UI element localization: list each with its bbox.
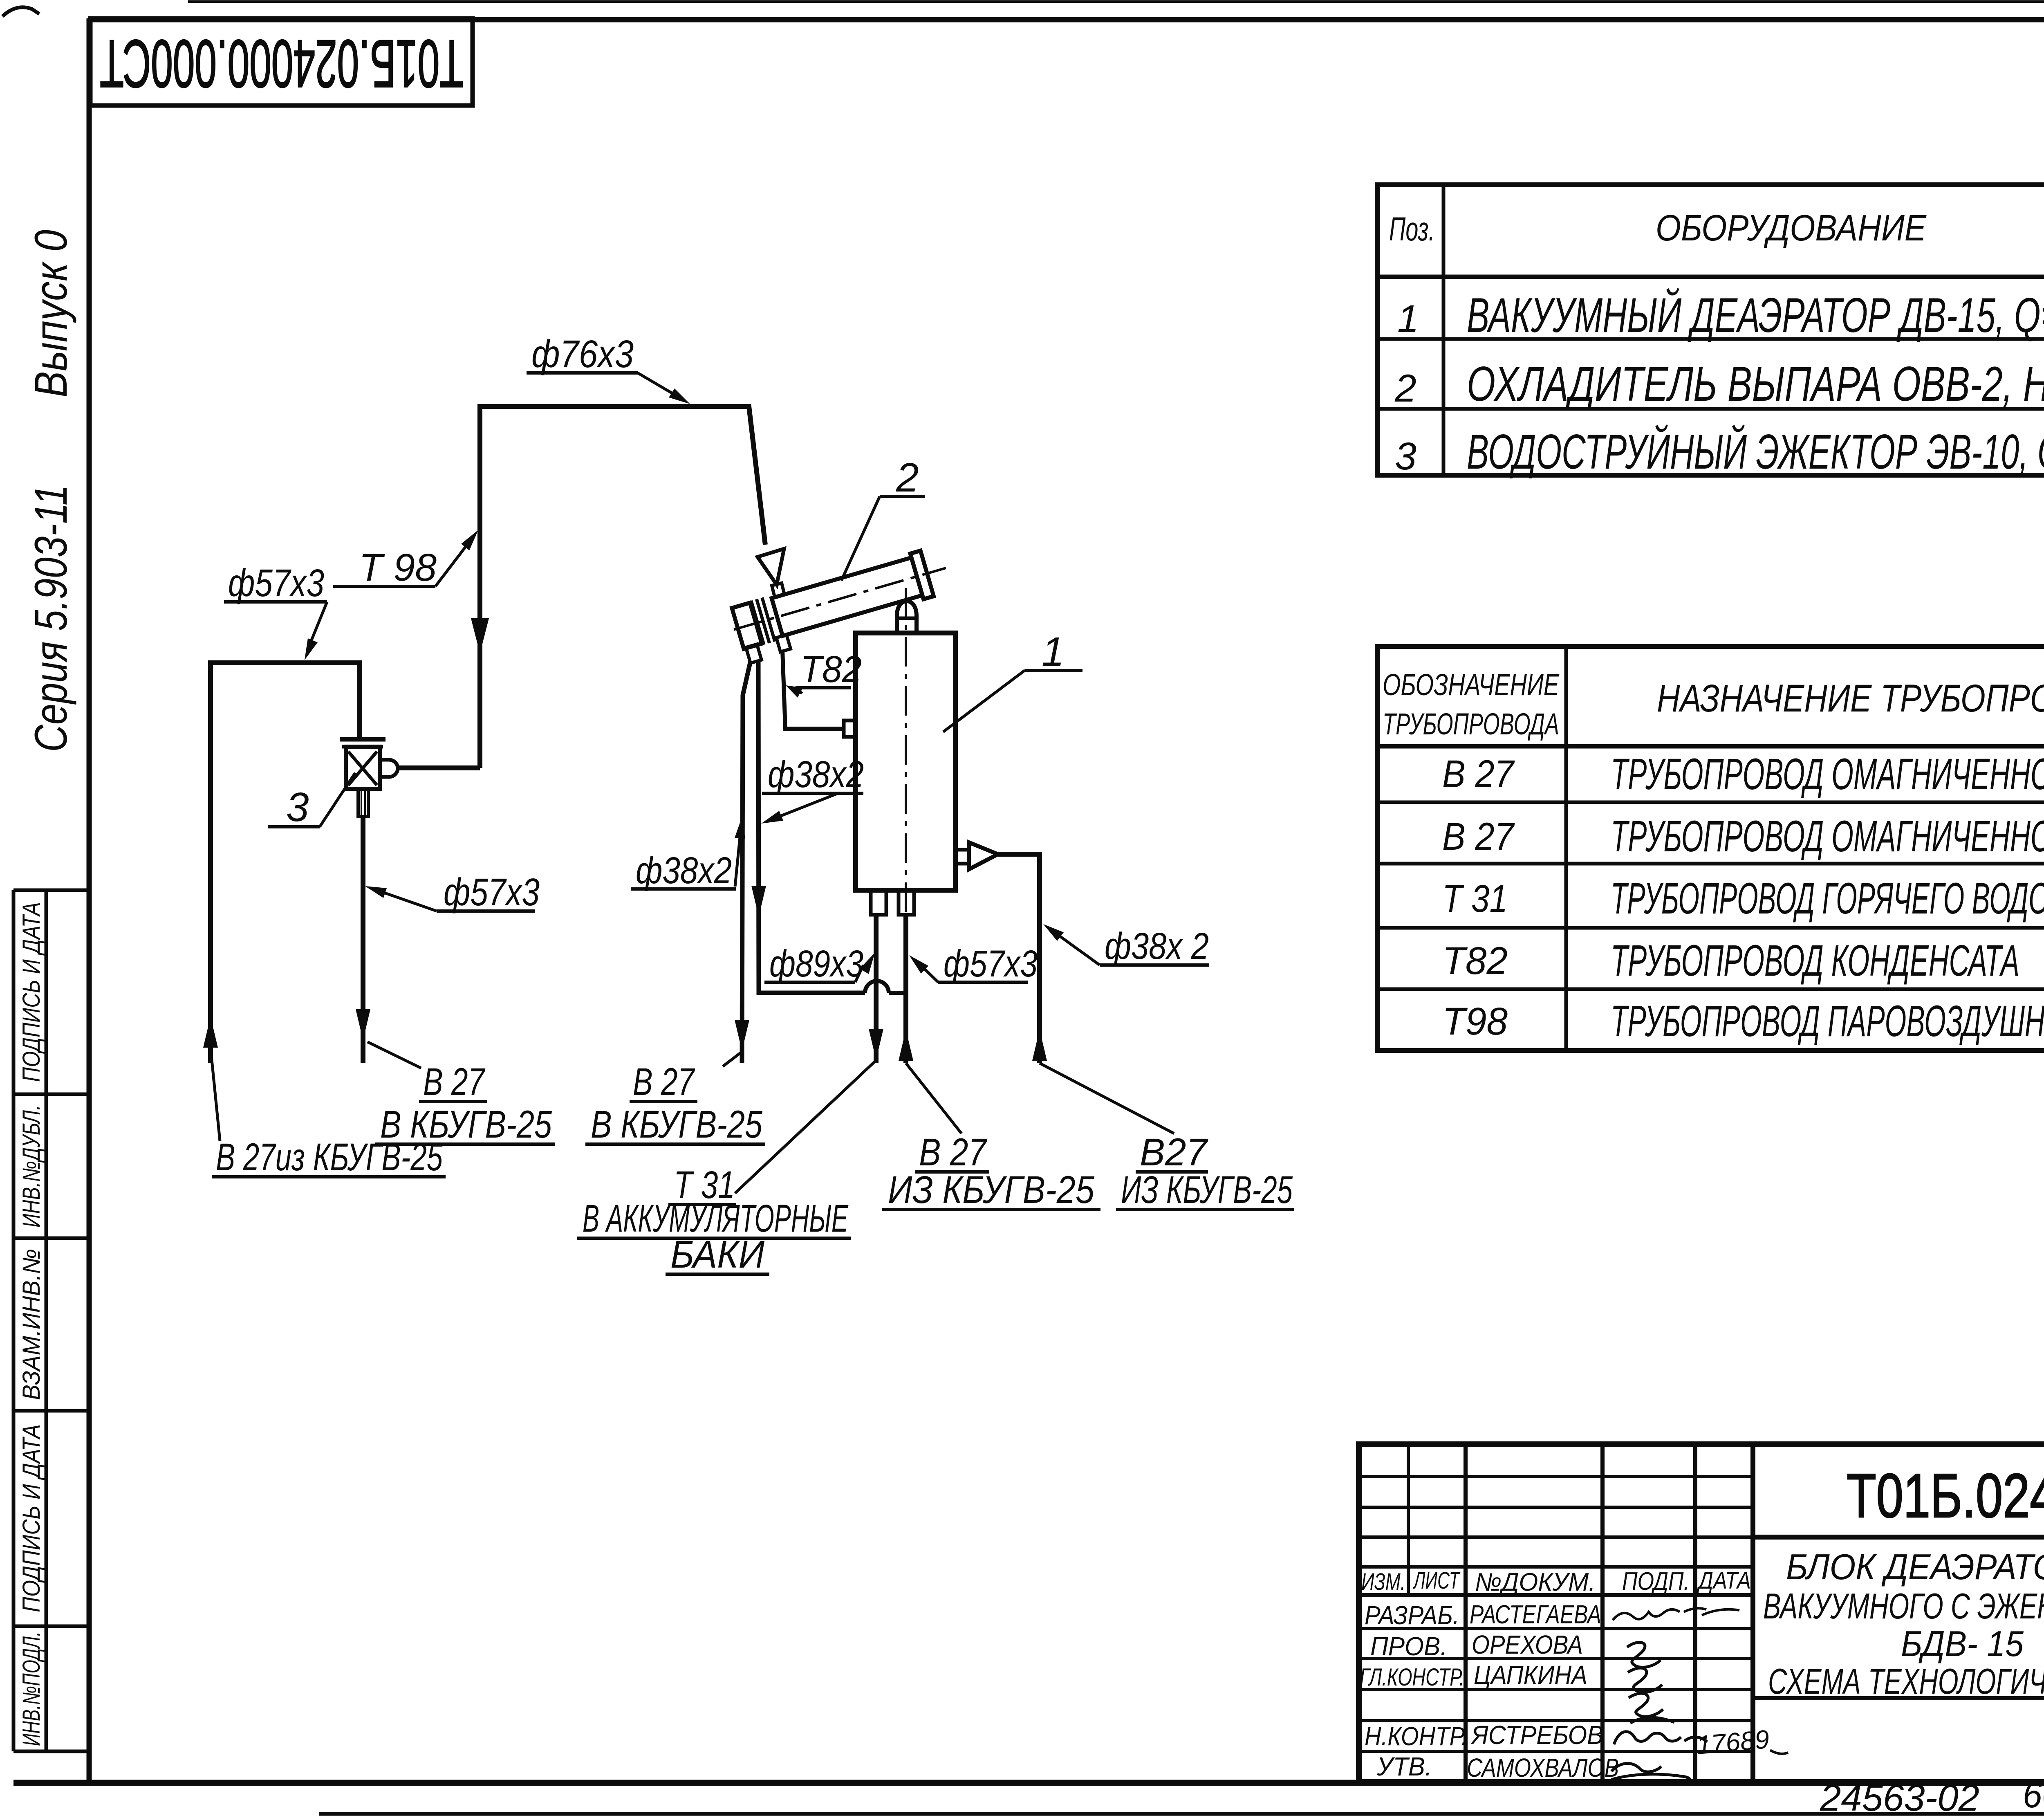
svg-text:ИЗМ.: ИЗМ. (1361, 1569, 1405, 1595)
label 1 with leader (943, 629, 1083, 732)
vapour funnel above cooler (758, 549, 784, 585)
ejector side nozzle (380, 760, 398, 777)
frame left border (87, 18, 92, 1783)
label B27 iz KBUGV-25 mid (882, 1131, 1100, 1212)
label phi38x2 upper (761, 754, 864, 824)
deaerator vessel 1 (856, 633, 955, 890)
svg-text:Т82: Т82 (1442, 939, 1508, 983)
flow arrow down on line 1 (735, 1020, 749, 1051)
svg-text:60: 60 (2023, 1774, 2044, 1816)
svg-text:1: 1 (1042, 629, 1065, 675)
label B27 iz KBUGV-25 far left (212, 1136, 446, 1179)
label phi38x2 right (1043, 924, 1209, 967)
flow arrow down on discharge (356, 1009, 370, 1040)
svg-text:БЛОК ДЕАЭРАТОРА: БЛОК ДЕАЭРАТОРА (1786, 1546, 2044, 1587)
svg-text:2: 2 (1394, 367, 1416, 410)
flow arrow down on line 2 (751, 886, 766, 917)
svg-text:ф38х 2: ф38х 2 (1105, 925, 1209, 967)
svg-text:САМОХВАЛОВ: САМОХВАЛОВ (1467, 1753, 1619, 1782)
svg-text:3: 3 (286, 784, 309, 830)
svg-text:3: 3 (1395, 435, 1416, 478)
svg-text:ПОДП.: ПОДП. (1622, 1567, 1690, 1596)
cooler 2 assembly (rotated) (727, 545, 956, 665)
T82 line from cooler (782, 650, 844, 729)
flow arrow up on right B27 riser (1032, 1030, 1047, 1061)
vessel bottom nozzle left (871, 890, 886, 915)
svg-text:ГЛ.КОНСТР.: ГЛ.КОНСТР. (1360, 1663, 1464, 1691)
pipe T98 horizontal to ejector (398, 765, 480, 770)
ejector internal cross (348, 752, 377, 785)
svg-text:2: 2 (896, 455, 919, 501)
svg-text:ТРУБОПРОВОДА: ТРУБОПРОВОДА (1383, 707, 1559, 741)
svg-text:ПОДПИСЬ И ДАТА: ПОДПИСЬ И ДАТА (18, 902, 45, 1082)
pipe table grid (1377, 646, 2044, 1050)
signature n.kontr (1614, 1732, 1707, 1744)
svg-text:ОХЛАДИТЕЛЬ ВЫПАРА ОВВ-2, Н=: ОХЛАДИТЕЛЬ ВЫПАРА ОВВ-2, Н=2м² (1467, 357, 2044, 411)
label phi89x3 (764, 943, 875, 985)
svg-text:Выпуск 0: Выпуск 0 (25, 230, 76, 397)
cooler body (772, 558, 923, 636)
label phi38x2 left (631, 817, 745, 891)
label T31 v akkumulyatornye baki (577, 1163, 851, 1276)
ejector discharge pipe (361, 817, 365, 1063)
vessel bottom nozzle right (899, 890, 914, 915)
svg-text:Т01Б.024 000.000 СТ: Т01Б.024 000.000 СТ (1847, 1461, 2044, 1531)
vessel dome (897, 601, 917, 633)
svg-text:В 27: В 27 (1442, 815, 1515, 858)
svg-text:Н.КОНТР.: Н.КОНТР. (1365, 1721, 1468, 1751)
svg-text:В27: В27 (1140, 1131, 1208, 1174)
flow arrow down on phi89 pipe (869, 1029, 883, 1060)
svg-text:Т98: Т98 (1442, 1000, 1508, 1043)
label phi57x3 bottom (909, 943, 1038, 985)
svg-text:ф38х2: ф38х2 (636, 850, 732, 891)
svg-text:ТРУБОПРОВОД ГОРЯЧЕГО ВОДОСНАБЖ: ТРУБОПРОВОД ГОРЯЧЕГО ВОДОСНАБЖЕНИЯ (1611, 873, 2044, 923)
phi89 drain pipe (874, 915, 879, 1063)
svg-text:ВАКУУМНЫЙ ДЕАЭРАТОР ДВ-15, Q: ВАКУУМНЫЙ ДЕАЭРАТОР ДВ-15, Q=15м³/ч (1467, 287, 2044, 343)
svg-text:СХЕМА ТЕХНОЛОГИЧЕСКАЯ: СХЕМА ТЕХНОЛОГИЧЕСКАЯ (1768, 1661, 2044, 1701)
document stamp box (rotated designation) (90, 18, 473, 105)
B27 outlet run right (998, 854, 1040, 1063)
page top edge line (188, 0, 2044, 3)
cooler centerline (734, 568, 946, 630)
svg-text:ИНВ.№ПОДЛ.: ИНВ.№ПОДЛ. (18, 1632, 45, 1746)
label B27 iz KBUGV-25 right (1116, 1131, 1294, 1212)
svg-text:БДВ- 15: БДВ- 15 (1901, 1623, 2024, 1664)
cooler condensate pipe line 1 (742, 661, 751, 1063)
leader to T31 label (735, 1062, 875, 1193)
leader discharge to label (368, 1042, 421, 1068)
svg-text:24563-02: 24563-02 (1820, 1777, 1979, 1818)
svg-text:Т01Б.024000.000СТ: Т01Б.024000.000СТ (100, 26, 464, 101)
T82 inlet fitting on vessel (844, 720, 856, 737)
svg-text:ТРУБОПРОВОД ОМАГНИЧЕННОЙ ВОД: ТРУБОПРОВОД ОМАГНИЧЕННОЙ ВОДЫ (1611, 811, 2044, 861)
svg-text:Поз.: Поз. (1389, 211, 1435, 248)
leader line1 to B KBUGV label (723, 1052, 742, 1066)
label 3 with leader (268, 773, 355, 830)
svg-text:ПРОВ.: ПРОВ. (1370, 1632, 1447, 1661)
cooler right end flange (910, 551, 934, 599)
svg-text:ТРУБОПРОВОД КОНДЕНСАТА: ТРУБОПРОВОД КОНДЕНСАТА (1611, 936, 2019, 985)
cooler left flange plates (751, 601, 764, 645)
equipment table grid (1377, 185, 2044, 475)
outlet cone (969, 842, 998, 869)
svg-text:ф57х3: ф57х3 (228, 561, 324, 605)
svg-text:В 27: В 27 (633, 1060, 695, 1104)
svg-text:Серия 5.903-11: Серия 5.903-11 (25, 485, 76, 752)
ejector 3 body (346, 747, 380, 789)
flow arrow on T98 vertical (471, 618, 489, 653)
svg-text:ИЗ КБУГВ-25: ИЗ КБУГВ-25 (888, 1168, 1095, 1212)
label 2 with leader (841, 455, 925, 581)
label phi57x3 at ejector discharge (365, 871, 540, 914)
cooler left end cap (732, 603, 762, 649)
frame bottom border (13, 1780, 2044, 1786)
vessel centerline (905, 588, 907, 918)
svg-text:Т 98: Т 98 (359, 546, 437, 589)
page corner mark top-left (2, 7, 39, 16)
ejector 3 top flange (340, 737, 385, 742)
signature razrab (1613, 1608, 1706, 1620)
svg-text:№ДОКУМ.: №ДОКУМ. (1475, 1568, 1596, 1596)
svg-text:РАСТЕГАЕВА: РАСТЕГАЕВА (1470, 1600, 1601, 1629)
label B27 v KBUGV-25 left (585, 1060, 765, 1146)
leader phi57 pipe to label (906, 1063, 961, 1133)
svg-text:Т82: Т82 (800, 649, 862, 690)
svg-text:ф38х2: ф38х2 (768, 754, 864, 795)
cooler drain fitting (746, 644, 762, 663)
svg-text:1: 1 (1397, 297, 1419, 341)
svg-text:ВЗАМ.ИНВ.№: ВЗАМ.ИНВ.№ (18, 1249, 45, 1400)
phi57 feed pipe (903, 915, 908, 1063)
signature prov and gl.konstr scribble (1627, 1642, 1674, 1723)
svg-text:ИЗ КБУГВ-25: ИЗ КБУГВ-25 (1121, 1168, 1293, 1212)
svg-text:БАКИ: БАКИ (670, 1233, 765, 1276)
margin box column grid (13, 890, 89, 1751)
svg-text:ПОДПИСЬ И ДАТА: ПОДПИСЬ И ДАТА (18, 1424, 45, 1612)
svg-text:ф76х3: ф76х3 (531, 332, 634, 376)
svg-text:ф57х3: ф57х3 (444, 871, 540, 914)
pipe T98 top run (480, 406, 765, 768)
svg-text:В 27: В 27 (1442, 752, 1515, 796)
leader to B27 iz label (211, 1048, 220, 1141)
funnel neck (772, 583, 784, 597)
ejector bottom diffuser (358, 789, 368, 817)
svg-text:ф57х3: ф57х3 (944, 943, 1038, 985)
svg-text:ОРЕХОВА: ОРЕХОВА (1472, 1630, 1583, 1659)
flow arrow up on phi57 pipe (899, 1030, 913, 1061)
label T98 (333, 530, 478, 589)
svg-text:ОБОРУДОВАНИЕ: ОБОРУДОВАНИЕ (1656, 208, 1927, 249)
svg-text:В КБУГВ-25: В КБУГВ-25 (591, 1103, 763, 1146)
svg-text:ИНВ.№ДУБЛ.: ИНВ.№ДУБЛ. (18, 1105, 45, 1228)
signature utv (1611, 1764, 1690, 1782)
pipe from jump to phi57 riser (889, 991, 906, 995)
svg-text:ТРУБОПРОВОД ОМАГНИЧЕННОЙ ВОД: ТРУБОПРОВОД ОМАГНИЧЕННОЙ ВОДЫ (1611, 749, 2044, 799)
vessel right outlet nozzle (955, 848, 969, 852)
svg-text:ф89х3: ф89х3 (769, 943, 863, 985)
page bottom edge line (319, 1812, 2044, 1816)
title block grid (1359, 1444, 2044, 1782)
label B27 v KBUGV-25 ejector (375, 1060, 555, 1146)
label T82 (786, 649, 862, 698)
svg-text:В 27: В 27 (423, 1060, 485, 1104)
svg-text:НАЗНАЧЕНИЕ ТРУБОПРОВОДА: НАЗНАЧЕНИЕ ТРУБОПРОВОДА (1657, 677, 2044, 720)
svg-text:ДАТА: ДАТА (1697, 1567, 1751, 1594)
svg-text:ЯСТРЕБОВ: ЯСТРЕБОВ (1470, 1720, 1603, 1750)
svg-text:ЦАПКИНА: ЦАПКИНА (1474, 1660, 1587, 1690)
svg-text:ЛИСТ: ЛИСТ (1412, 1567, 1460, 1594)
svg-text:Т 31: Т 31 (1442, 877, 1508, 920)
pipe jump break over phi89 pipe (865, 981, 889, 993)
date dash razrab (1702, 1609, 1739, 1615)
label phi57x3 top (224, 561, 327, 660)
svg-text:ТРУБОПРОВОД ПАРОВОЗДУШНОЙ СМ: ТРУБОПРОВОД ПАРОВОЗДУШНОЙ СМЕСИ (1611, 996, 2044, 1046)
leader right riser to label (1040, 1063, 1174, 1133)
flow arrow up on left B27 riser (203, 1017, 218, 1048)
svg-text:ОБОЗНАЧЕНИЕ: ОБОЗНАЧЕНИЕ (1383, 668, 1560, 702)
svg-text:РАЗРАБ.: РАЗРАБ. (1365, 1600, 1459, 1630)
svg-text:УТВ.: УТВ. (1376, 1752, 1432, 1781)
pipe B27 loop to ejector (211, 663, 360, 1063)
frame top border (89, 17, 2044, 22)
svg-text:В КБУГВ-25: В КБУГВ-25 (380, 1103, 552, 1146)
svg-text:В 27: В 27 (919, 1131, 988, 1174)
dome weld line (897, 617, 917, 620)
cooler condensate pipe line 2 (758, 661, 865, 993)
label phi76x3 (527, 332, 690, 404)
svg-text:ВОДОСТРУЙНЫЙ ЭЖЕКТОР ЭВ-10,: ВОДОСТРУЙНЫЙ ЭЖЕКТОР ЭВ-10, Q=10Т/ч (1467, 424, 2044, 479)
cooler T82 outlet fitting (776, 635, 791, 652)
svg-text:ВАКУУМНОГО С ЭЖЕКТОРОМ: ВАКУУМНОГО С ЭЖЕКТОРОМ (1763, 1586, 2044, 1626)
